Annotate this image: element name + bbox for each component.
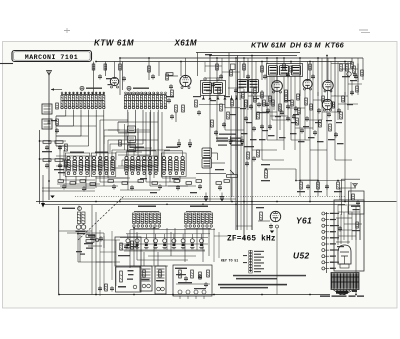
svg-text:DH 63 M: DH 63 M xyxy=(290,41,322,50)
IF transformer T3 windings xyxy=(238,80,248,93)
IF stage coupling components xyxy=(211,98,344,144)
T1 can terminal feet xyxy=(199,96,240,108)
pencil mark top margin left xyxy=(64,30,70,32)
wire verticals top-left of IF bank xyxy=(228,53,230,96)
electrolytic block internal hatch xyxy=(131,246,165,281)
oscillator anode components xyxy=(195,100,198,107)
pin circles under tubes xyxy=(111,86,333,111)
wire HT return bus xyxy=(44,203,345,205)
padder trimmers xyxy=(56,103,59,109)
caption bottom right xyxy=(320,295,330,297)
svg-text:Y61: Y61 xyxy=(296,216,312,226)
wire horizontal connectors middle band xyxy=(217,120,352,180)
wire horizontals bottom-middle xyxy=(120,230,215,267)
AVC line (dotted) xyxy=(75,195,345,197)
valve V6 (AF amplifier) xyxy=(270,211,280,221)
note line 1 xyxy=(233,275,306,277)
extra bottom middle wiring xyxy=(96,92,252,296)
bottom capacitor row xyxy=(98,287,102,289)
padder capacitor row xyxy=(120,234,208,251)
note line 3 xyxy=(218,284,287,286)
wire top rail y52 xyxy=(196,52,300,54)
transformer terminal bundle xyxy=(333,290,357,295)
component stack between bands xyxy=(119,124,138,152)
wire main earth bus xyxy=(36,201,397,203)
valve V3 KTW61M (IF amplifier) xyxy=(272,81,283,92)
wire centre spine xyxy=(237,56,239,231)
extra parts top middle xyxy=(206,82,358,131)
tone components cluster xyxy=(247,152,250,159)
wire vertical drops from HT rail xyxy=(94,56,364,151)
wire AVC horizontals xyxy=(40,140,67,142)
dense wiring top middle xyxy=(205,58,362,150)
component blobs left band xyxy=(58,172,230,193)
wave-band switch S2 wafer A xyxy=(134,211,159,213)
svg-text:KT66: KT66 xyxy=(325,41,345,50)
AVC filter resistors xyxy=(43,141,51,144)
switch legend text block xyxy=(216,134,243,146)
note line 2 xyxy=(236,278,277,280)
oscillator grid components xyxy=(171,90,174,97)
detector load resistors xyxy=(265,170,268,178)
mains transformer windings xyxy=(331,273,359,290)
wire mesh centre-left extra xyxy=(104,130,158,166)
tuning gang dashed link xyxy=(78,197,123,240)
wire tube anode risers xyxy=(114,62,116,78)
IF transformer T2 xyxy=(267,64,303,77)
wire HT rail upper xyxy=(96,61,352,63)
wave-band switch S2 wafer B xyxy=(186,211,211,213)
power pack interior detail xyxy=(336,206,362,247)
cathode bias capacitor xyxy=(269,225,273,227)
rectifier feed box interior xyxy=(176,270,210,299)
rectifier feed box xyxy=(173,265,212,296)
svg-text:MARCONI 7101: MARCONI 7101 xyxy=(25,54,78,61)
IF transformer T1 (two windings) xyxy=(201,81,226,96)
grounded capacitors middle xyxy=(177,136,244,201)
scanned sheet area xyxy=(3,42,398,309)
IF stage extra parts right xyxy=(253,88,299,115)
decoupling resistors and capacitors on HT rail xyxy=(92,62,357,90)
AF grid resistor xyxy=(260,212,263,220)
AF coupling resistors hanging xyxy=(300,182,303,189)
wire AVC bus vertical xyxy=(39,130,41,204)
key ladder chart xyxy=(243,250,264,273)
wires into power pack xyxy=(339,188,341,200)
valve V8 U52 rectifier bulb xyxy=(338,245,351,264)
ground arrow left xyxy=(42,175,44,203)
power pack enclosure xyxy=(334,200,364,271)
electrolytic capacitor block C2 xyxy=(155,266,166,294)
wire mesh left middle band xyxy=(56,112,196,190)
svg-text:KTW 61M: KTW 61M xyxy=(251,41,287,50)
mains dropper box lower xyxy=(116,267,142,292)
wave-band switch S1 wafer A xyxy=(61,94,105,96)
valve V1 KTW61M (RF amplifier) xyxy=(110,77,118,85)
svg-text:U52: U52 xyxy=(293,251,310,261)
oscillator coil bank L6 group xyxy=(162,156,165,159)
aerial coil L2 xyxy=(42,119,52,129)
svg-text:ZF=465 kHz: ZF=465 kHz xyxy=(227,236,276,244)
wire verticals bottom-middle xyxy=(130,228,209,268)
RF coil bank L4 group xyxy=(92,156,95,159)
trimmer cluster right of ladder xyxy=(88,235,95,237)
electrolytic capacitor block C1 xyxy=(140,266,152,291)
wave-band switch S1 wafer B xyxy=(125,94,167,96)
pencil mark top margin right xyxy=(359,29,368,31)
wire HT rail lower xyxy=(120,57,363,59)
wire screen/anode drops middle xyxy=(210,77,352,231)
switch wafer label arrows xyxy=(51,89,62,91)
oscillator coil bank L5 group xyxy=(125,156,128,159)
wire tails from switch to aerial coils xyxy=(56,110,158,166)
wire tails under switch wafers xyxy=(62,92,162,100)
IF transformer T4 (oscillator section) xyxy=(202,148,212,158)
output stage grid resistors xyxy=(340,64,343,71)
valve V7 Y61 tuning indicator xyxy=(341,178,360,180)
aerial coil L1 xyxy=(42,104,52,114)
valve V2 X61M (frequency changer) xyxy=(180,75,191,86)
mains on-off switch detail xyxy=(85,233,104,249)
mains switch cluster xyxy=(86,235,95,238)
valve-base connection chart xyxy=(322,212,335,273)
mains dropper box upper xyxy=(115,237,141,266)
scan fold artifact top left xyxy=(0,63,13,65)
note line 4 xyxy=(220,287,268,289)
switch wafer C with coil ladder xyxy=(62,208,75,209)
valve V5 KT66 (output, upper) xyxy=(323,80,333,90)
wire lower bus segment xyxy=(120,198,236,200)
svg-text:X61M: X61M xyxy=(174,39,198,48)
valve chart longer annotations xyxy=(330,213,339,269)
chassis interior left wiring xyxy=(67,231,120,262)
chassis ground symbol xyxy=(50,196,54,199)
antenna xyxy=(47,71,52,76)
chassis outline (power unit) xyxy=(58,206,60,295)
wire V6 cathode down xyxy=(276,228,278,295)
title box MARCONI 7101 xyxy=(12,51,92,62)
svg-text:KEY TO 51: KEY TO 51 xyxy=(221,259,238,263)
svg-text:KTW 61M: KTW 61M xyxy=(94,39,134,48)
RF coil bank L3 group xyxy=(67,156,70,159)
volume control potentiometer xyxy=(196,173,226,175)
valve V4 DH63M (detector/AF) xyxy=(303,79,312,88)
wire top feed segment xyxy=(210,55,297,57)
valve V5 KT66 (output, lower triode) xyxy=(322,99,332,109)
